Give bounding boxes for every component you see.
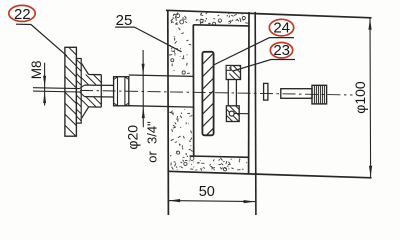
svg-text:φ100: φ100 — [352, 81, 368, 114]
svg-text:24: 24 — [273, 20, 290, 37]
svg-text:25: 25 — [116, 12, 133, 29]
svg-text:50: 50 — [199, 184, 215, 200]
svg-text:φ20: φ20 — [124, 125, 140, 150]
svg-text:23: 23 — [273, 42, 290, 59]
svg-text:or 3/4": or 3/4" — [144, 121, 159, 163]
svg-text:M8: M8 — [29, 60, 44, 79]
svg-text:22: 22 — [14, 6, 31, 23]
